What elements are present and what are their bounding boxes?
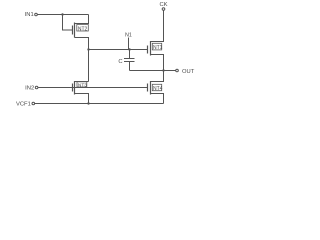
svg-text:VCF1: VCF1 <box>16 101 31 107</box>
terminal CK <box>162 8 165 11</box>
transistor NT2 <box>73 15 89 50</box>
transistor NT3 <box>73 81 89 104</box>
junction dot NT3 source on rail <box>87 102 89 104</box>
junction dot at NT1 source / NT4 drain <box>162 69 164 71</box>
terminal IN1 <box>35 13 38 16</box>
transistor NT4 <box>148 71 164 104</box>
svg-text:IN2: IN2 <box>25 85 34 91</box>
junction dot on IN1 wire <box>61 13 63 15</box>
wire NT2 source to NT3 drain <box>88 38 90 82</box>
wire node N1 horizontal to NT1 gate <box>89 49 148 51</box>
wire bottom rail <box>35 103 164 105</box>
transistor NT1 <box>148 10 164 70</box>
wire N1 leader <box>128 38 130 50</box>
capacitor C <box>118 50 134 71</box>
svg-text:IN1: IN1 <box>25 12 34 18</box>
svg-text:NT2: NT2 <box>78 26 88 32</box>
terminal IN2 <box>35 86 38 89</box>
junction dot at capacitor tap <box>128 48 130 50</box>
terminal VCF1 <box>32 102 35 105</box>
junction dot node N1 tap <box>87 48 89 50</box>
svg-text:NT1: NT1 <box>153 45 163 51</box>
terminal OUT <box>176 69 179 72</box>
wire IN2 to NT3 and NT4 gates <box>38 87 147 89</box>
wire IN1 to NT2 drain <box>38 14 89 16</box>
wire OUT line <box>130 70 176 72</box>
svg-text:NT4: NT4 <box>153 86 163 92</box>
svg-text:C: C <box>118 59 122 65</box>
svg-text:OUT: OUT <box>182 69 195 75</box>
wire IN1 junction to NT2 gate <box>63 15 73 31</box>
